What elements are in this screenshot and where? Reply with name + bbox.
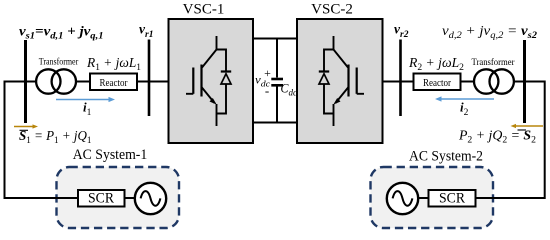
- svg-text:VSC-1: VSC-1: [183, 2, 225, 18]
- svg-text:Transformer: Transformer: [39, 57, 79, 68]
- svg-text:Reactor: Reactor: [100, 78, 128, 89]
- svg-text:Transformer: Transformer: [472, 57, 516, 68]
- svg-text:AC System-1: AC System-1: [73, 147, 148, 163]
- svg-text:SCR: SCR: [439, 191, 465, 207]
- svg-text:Reactor: Reactor: [423, 78, 451, 89]
- svg-text:AC System-2: AC System-2: [409, 149, 483, 165]
- svg-text:VSC-2: VSC-2: [311, 2, 353, 18]
- svg-text:-: -: [265, 83, 269, 98]
- svg-text:SCR: SCR: [88, 191, 114, 207]
